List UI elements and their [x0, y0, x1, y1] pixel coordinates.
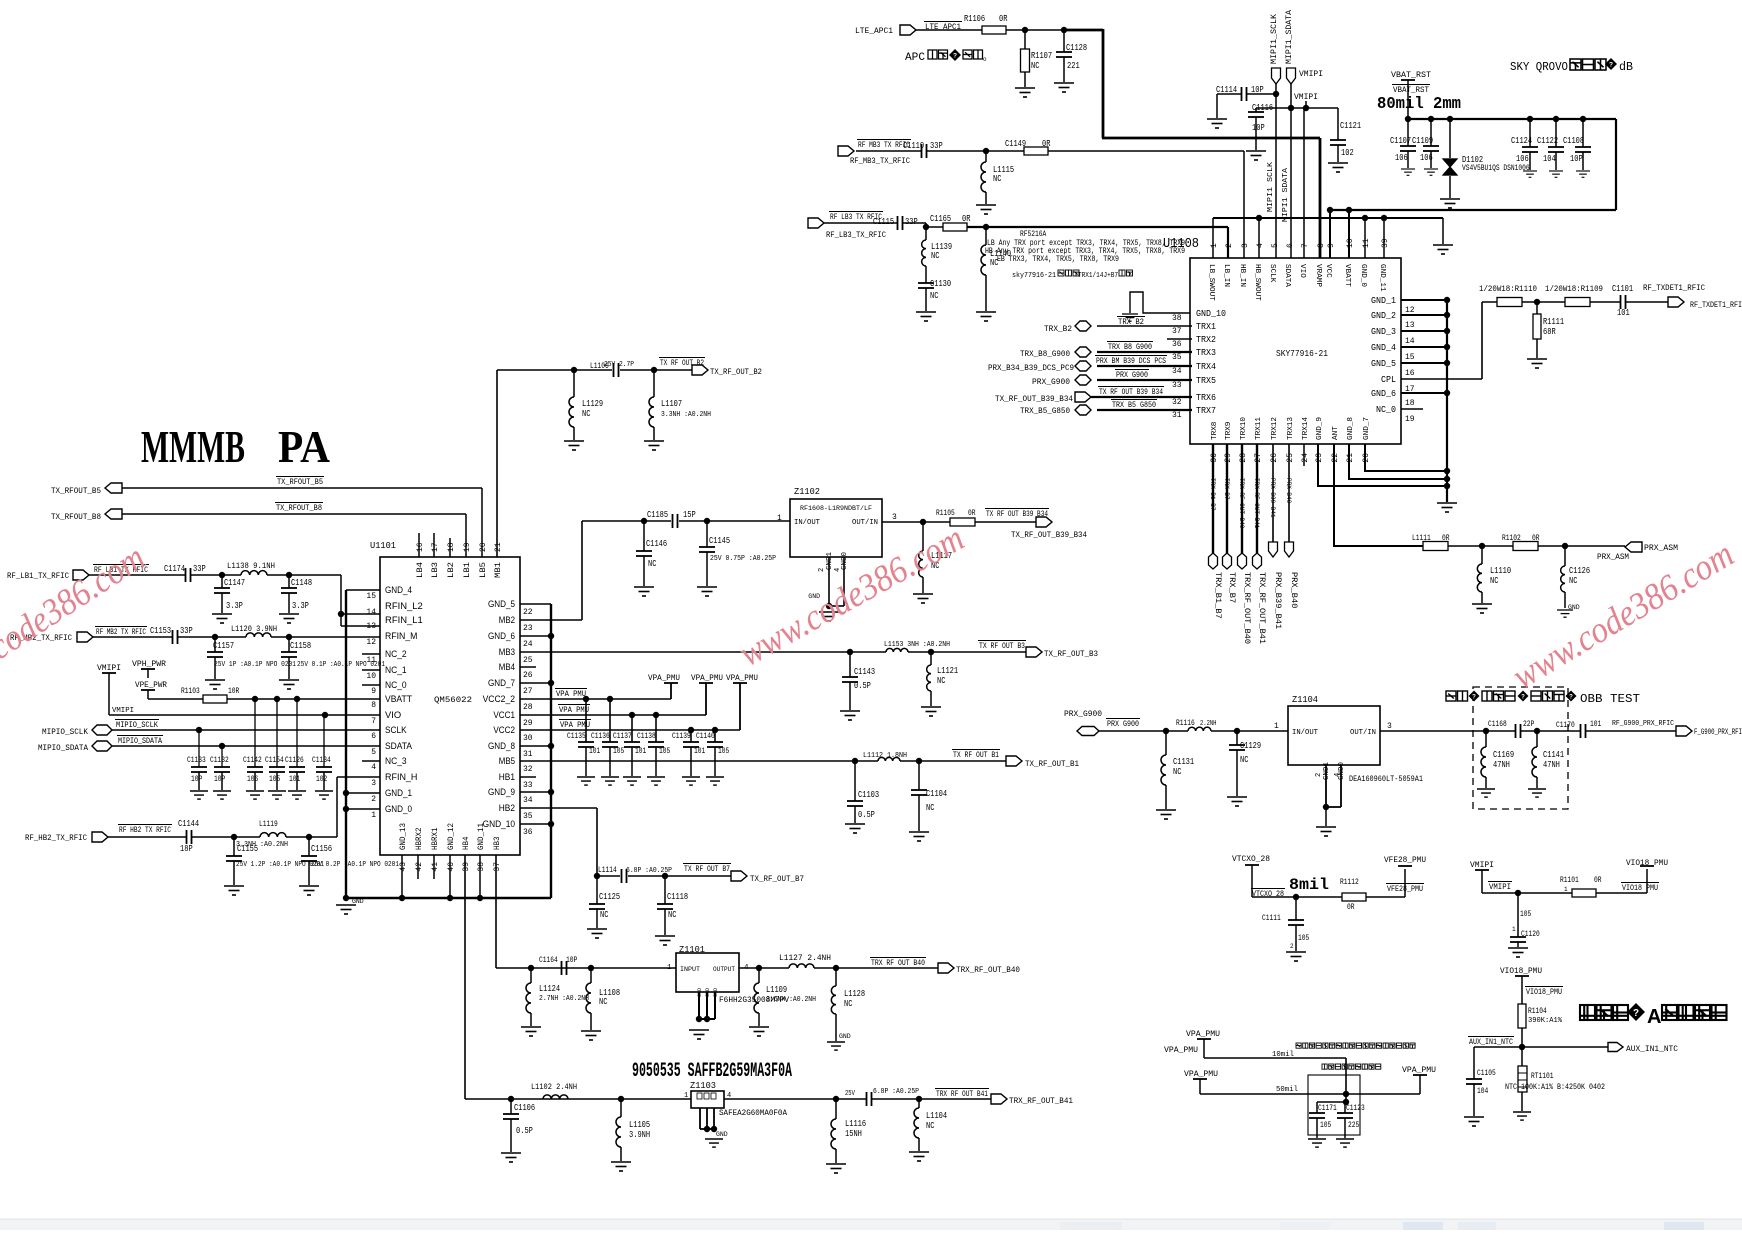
capacitor C1140: [714, 730, 716, 742]
svg-text:101: 101: [1617, 308, 1630, 318]
svg-text:TRX9: TRX9: [1225, 422, 1233, 440]
svg-text:SKY QROVO: SKY QROVO: [1510, 60, 1568, 74]
svg-text:13: 13: [366, 622, 376, 631]
svg-text:TX_RF_OUT_B7: TX_RF_OUT_B7: [750, 875, 804, 884]
svg-text:TRX_B2: TRX_B2: [1044, 325, 1072, 334]
wire gnd bus right: [1446, 300, 1448, 502]
svg-text:VBATT: VBATT: [1343, 264, 1351, 287]
svg-text:C1169: C1169: [1493, 750, 1514, 760]
node B7 b: [628, 875, 731, 877]
svg-text:225: 225: [1348, 1121, 1359, 1130]
svg-text:35: 35: [1172, 353, 1182, 362]
svg-text:C1122: C1122: [1537, 136, 1558, 146]
svg-text:1/20W18:R1109: 1/20W18:R1109: [1545, 285, 1603, 294]
node L1138 out: [267, 574, 341, 576]
svg-text:PRX BM B39 DCS PCS: PRX BM B39 DCS PCS: [1096, 357, 1166, 366]
node L1119 out: [286, 836, 337, 838]
node SCLK C1114: [1273, 91, 1279, 97]
svg-text:SAFEA2G60MA0F0A: SAFEA2G60MA0F0A: [719, 1109, 787, 1118]
svg-text:3: 3: [892, 513, 897, 522]
wire MIPI1_SDATA vertical: [1290, 84, 1292, 263]
svg-text:TRX B7: TRX B7: [1223, 478, 1230, 500]
svg-text:HBRX2: HBRX2: [415, 827, 424, 850]
resistor R1107: [1024, 30, 1026, 49]
svg-text:25V 0.1P :A0.1P NPO 0201: 25V 0.1P :A0.1P NPO 0201: [297, 661, 385, 669]
text katakana title bottom: [1580, 1005, 1595, 1020]
port PRX_ASM: [1625, 542, 1642, 552]
capacitor C1135: [585, 699, 587, 742]
ground C1143: [840, 711, 860, 720]
svg-text:28: 28: [523, 703, 533, 712]
svg-text:GND_5: GND_5: [1371, 359, 1396, 369]
svg-text:L1105: L1105: [629, 1120, 650, 1130]
wire to PRX_ASM: [1538, 545, 1625, 547]
ground Z1104: [1325, 807, 1327, 826]
capacitor C1158: [288, 637, 290, 652]
node L1108: [588, 965, 594, 971]
svg-text:390K:A1%: 390K:A1%: [1528, 1017, 1563, 1025]
svg-text:36: 36: [523, 828, 533, 837]
ground C1171: [1308, 1139, 1326, 1147]
wire R1103 to VBATT: [227, 698, 380, 700]
inductor L1116: [835, 1099, 837, 1119]
wire SCLK: [112, 729, 380, 731]
port RF_LB3_TX_RFIC: [808, 218, 824, 228]
svg-text:37: 37: [493, 862, 502, 872]
svg-text:2: 2: [1315, 773, 1323, 777]
svg-text:C1147: C1147: [224, 578, 245, 588]
ground C1133: [190, 791, 208, 799]
svg-text:105: 105: [613, 747, 624, 756]
wire LB4 stub: [418, 533, 420, 557]
svg-text:Z1103: Z1103: [690, 1081, 716, 1091]
wire GND_11 down: [479, 855, 481, 898]
svg-text:R1107: R1107: [1031, 51, 1052, 61]
svg-text:GND: GND: [697, 988, 703, 997]
svg-text:3.3P: 3.3P: [292, 601, 309, 611]
svg-text:C1125: C1125: [599, 892, 620, 902]
svg-text:105: 105: [1298, 934, 1309, 943]
svg-text:Z1104: Z1104: [1292, 695, 1318, 705]
svg-text:RF_TXDET1_RFI: RF_TXDET1_RFI: [1690, 301, 1742, 310]
ground L1110: [1472, 604, 1492, 613]
svg-text:TX_RF_OUT_B3: TX_RF_OUT_B3: [1044, 650, 1098, 659]
capacitor C1126: [296, 699, 298, 767]
svg-text:37: 37: [1172, 327, 1182, 336]
svg-text:28: 28: [1239, 453, 1248, 463]
wire GND_9 down: [1318, 444, 1447, 486]
svg-text:105: 105: [659, 747, 670, 756]
svg-text:38: 38: [477, 862, 486, 872]
svg-text:L1124: L1124: [539, 984, 560, 994]
wire Z1104 gnd: [1325, 765, 1327, 807]
svg-text:101: 101: [589, 747, 600, 756]
capacitor C1142: [254, 699, 256, 767]
svg-text:INPUT: INPUT: [680, 966, 700, 973]
ground C1130: [916, 312, 936, 321]
svg-text:HB3: HB3: [493, 836, 502, 850]
svg-text:TRX3: TRX3: [1196, 348, 1216, 358]
svg-text:dB: dB: [1619, 60, 1633, 74]
wire TRX3: [1097, 351, 1192, 353]
node LB3 a: [923, 224, 929, 230]
svg-text:NC: NC: [1240, 755, 1249, 765]
node L1120 out: [271, 636, 289, 638]
ground gnd bus right: [1437, 503, 1457, 512]
svg-text:GND: GND: [839, 1033, 851, 1040]
svg-text:GND_1: GND_1: [1371, 296, 1396, 306]
wire GND_4 to gnd bus: [346, 589, 380, 591]
svg-text:TRX11: TRX11: [1255, 417, 1263, 440]
pulse symbol GND_10: [1130, 292, 1190, 313]
inductor C1131: [1165, 731, 1167, 755]
svg-text:3.9NH: 3.9NH: [629, 1130, 650, 1140]
svg-text:26: 26: [1270, 453, 1279, 463]
svg-text:1: 1: [371, 811, 376, 820]
svg-text:TRX RF OUT B40: TRX RF OUT B40: [871, 959, 925, 968]
svg-text:L1102 2.4NH: L1102 2.4NH: [531, 1083, 577, 1092]
svg-text:PRX_ASM: PRX_ASM: [1644, 544, 1678, 553]
svg-text:25V 2.7P: 25V 2.7P: [604, 361, 634, 369]
svg-text:R1104: R1104: [1528, 1007, 1547, 1016]
inductor L1121: [930, 652, 932, 665]
node C1106: [508, 1096, 514, 1102]
svg-text:104: 104: [1543, 154, 1556, 164]
svg-text:18: 18: [1405, 399, 1415, 408]
svg-text:EB TRX3, TRX4, TRX5, TRX8, TRX: EB TRX3, TRX4, TRX5, TRX8, TRX9: [997, 255, 1119, 264]
node VBATT: [1346, 207, 1352, 213]
svg-text:C1168: C1168: [1488, 720, 1507, 729]
svg-text:9: 9: [371, 687, 376, 696]
wire RFIN_M: [289, 636, 380, 638]
svg-text:29: 29: [523, 719, 533, 728]
node C1120: [1515, 890, 1521, 896]
svg-text:C1148: C1148: [291, 578, 312, 588]
svg-text:C1124: C1124: [1511, 136, 1532, 146]
svg-text:0.5P: 0.5P: [854, 681, 871, 691]
svg-text:0R: 0R: [999, 14, 1008, 24]
svg-text:L1119: L1119: [259, 820, 278, 829]
wire B41 row: [465, 1098, 691, 1100]
svg-text:VPH_PWR: VPH_PWR: [132, 660, 166, 669]
svg-text:AUX_IN1_NTC: AUX_IN1_NTC: [1626, 1045, 1678, 1054]
svg-text:RF_MB3_TX_RFIC: RF_MB3_TX_RFIC: [850, 157, 910, 166]
svg-text:TRX RF OUT B40: TRX RF OUT B40: [1238, 478, 1245, 528]
node pin4 tie: [1256, 215, 1262, 221]
node C1141: [1521, 730, 1580, 732]
svg-text:12: 12: [1405, 306, 1415, 315]
svg-text:1: 1: [684, 1092, 688, 1100]
svg-text:C1142: C1142: [243, 756, 262, 765]
node GND_11 tie: [1381, 215, 1387, 221]
svg-text:PRX G900: PRX G900: [1116, 371, 1148, 380]
ground C1123: [1336, 1139, 1354, 1147]
svg-text:L1114: L1114: [598, 866, 617, 875]
svg-text:29: 29: [1224, 453, 1233, 463]
svg-text:10P: 10P: [1570, 154, 1583, 164]
svg-text:C1126: C1126: [1569, 566, 1590, 576]
capacitor C1132: [221, 746, 223, 767]
node B3: [908, 651, 1026, 653]
svg-text:R1101: R1101: [1560, 876, 1579, 885]
svg-text:GND0: GND0: [841, 552, 849, 570]
svg-text:L1138 9.1NH: L1138 9.1NH: [227, 562, 275, 571]
svg-text:C1141: C1141: [1543, 750, 1564, 760]
node GND_0: [346, 808, 380, 810]
svg-text:C1131: C1131: [1173, 757, 1194, 767]
svg-text:TX_RF_OUT_B2: TX_RF_OUT_B2: [710, 368, 762, 377]
svg-text:C1105: C1105: [1477, 1069, 1496, 1078]
ground L1116: [826, 1164, 846, 1173]
svg-text:RF HB2 TX RFIC: RF HB2 TX RFIC: [119, 826, 171, 835]
svg-text:VIO18_PMU: VIO18_PMU: [1500, 967, 1542, 976]
svg-text:TRX_B5_G850: TRX_B5_G850: [1020, 407, 1070, 416]
svg-text:VMIPI: VMIPI: [1299, 70, 1323, 79]
svg-text:TX_RF_OUT_B1: TX_RF_OUT_B1: [1025, 760, 1079, 769]
svg-text:LB_SWOUT: LB_SWOUT: [1207, 264, 1215, 301]
svg-text:25: 25: [523, 656, 533, 665]
port TX_RF_OUT_B2: [692, 365, 708, 375]
ground L1124: [521, 1027, 541, 1036]
capacitor C1118: [664, 876, 666, 904]
wire GND_11 up: [1383, 218, 1385, 258]
svg-text:NC: NC: [926, 803, 935, 813]
svg-text:ANT: ANT: [1332, 426, 1340, 440]
wire TRX2 stub: [1167, 338, 1192, 340]
svg-text:TRX7: TRX7: [1196, 406, 1216, 416]
svg-text:MIPIO_SDATA: MIPIO_SDATA: [118, 737, 162, 746]
svg-text:VPA PMU: VPA PMU: [556, 690, 586, 699]
capacitor C1106: [510, 1099, 512, 1114]
svg-text:LB2: LB2: [447, 562, 456, 578]
capacitor C1104: [918, 761, 920, 790]
ground C1126: [288, 791, 306, 799]
svg-text:GND_7: GND_7: [488, 678, 515, 688]
port TRX_RF_OUT_B40: [938, 963, 954, 973]
svg-text:2: 2: [1225, 243, 1234, 248]
wire GND_13 down: [401, 855, 403, 898]
port TX_RF_OUT_B7: [731, 871, 747, 881]
capacitor C1153: [93, 636, 172, 638]
svg-text:19: 19: [1405, 415, 1415, 424]
svg-text:L1116: L1116: [845, 1119, 866, 1129]
svg-text:33P: 33P: [180, 626, 193, 636]
svg-text:VCC2: VCC2: [493, 725, 515, 735]
ground L1117: [913, 594, 933, 603]
wire to B40 port: [814, 967, 938, 969]
svg-text:VBAT_RST: VBAT_RST: [1393, 86, 1429, 95]
wire AUX left: [1474, 1046, 1522, 1048]
wire ANT down: [1334, 444, 1423, 546]
svg-text:C1137: C1137: [613, 732, 632, 741]
ground C1169: [1477, 789, 1495, 797]
svg-text:RF5216A: RF5216A: [1020, 230, 1046, 239]
svg-text:9: 9: [1327, 243, 1336, 248]
wire swout line down: [1442, 218, 1444, 244]
svg-text:GND_10: GND_10: [1196, 309, 1226, 319]
svg-text:105: 105: [718, 747, 729, 756]
svg-text:LB5: LB5: [479, 562, 488, 578]
node GND_1: [346, 792, 380, 794]
svg-text:GND1: GND1: [1323, 762, 1331, 780]
svg-text:80mil 2mm: 80mil 2mm: [1377, 95, 1461, 114]
svg-text:VPA_PMU: VPA_PMU: [1186, 1030, 1220, 1039]
capacitor C1121: [1337, 108, 1339, 140]
svg-text:105: 105: [269, 775, 280, 784]
svg-text:10R: 10R: [228, 687, 239, 696]
svg-text:43: 43: [399, 862, 408, 872]
svg-text:14: 14: [1405, 337, 1415, 346]
svg-text:NC: NC: [1490, 576, 1499, 586]
ground C1128: [1054, 83, 1074, 92]
wire LB2 stub: [449, 538, 451, 557]
wire GND_12 down: [449, 855, 451, 898]
svg-text:?: ?: [1609, 62, 1613, 69]
svg-text:34: 34: [1172, 367, 1182, 376]
wire R1106 to node: [1006, 29, 1064, 31]
svg-text:VCC: VCC: [1324, 264, 1332, 278]
wire HB_SWOUT pin4 up: [1258, 218, 1260, 258]
wire C1165 to LB_IN: [967, 226, 1228, 228]
svg-text:0.5P: 0.5P: [858, 810, 875, 820]
port TX_RF_OUT_B3: [1026, 647, 1042, 657]
capacitor C1147: [221, 575, 223, 588]
svg-text:10mil: 10mil: [1272, 1051, 1294, 1059]
capacitor C1144: [108, 836, 186, 838]
svg-text:MIPI1_SCLK: MIPI1_SCLK: [1270, 14, 1279, 64]
svg-text:GND_12: GND_12: [447, 823, 456, 850]
wire TX_RFOUT_B8: [122, 513, 466, 515]
svg-text:PRX B40: PRX B40: [1285, 478, 1292, 503]
svg-text:32: 32: [523, 765, 533, 774]
ground C1158: [279, 680, 299, 689]
inductor L1139: [925, 227, 927, 240]
node L1124: [528, 965, 534, 971]
ic U1108 SKY77916-21 body: [1190, 258, 1401, 444]
node C1144 out: [192, 836, 260, 838]
wire to RFIN_H: [336, 777, 338, 837]
node R1110 R1109: [1522, 301, 1565, 303]
svg-text:GND_4: GND_4: [385, 585, 412, 595]
svg-text:6: 6: [371, 732, 376, 741]
svg-text:LTE_APC1: LTE_APC1: [855, 27, 893, 36]
capacitor C1120: [1517, 893, 1519, 937]
port TX_RF_OUT_B39_B34: [1036, 517, 1052, 527]
svg-text:IN/OUT: IN/OUT: [1292, 729, 1318, 737]
svg-text:C1138: C1138: [637, 732, 656, 741]
ground swout line: [1433, 245, 1453, 254]
svg-text:25: 25: [1286, 453, 1295, 463]
svg-text:C1104: C1104: [926, 789, 947, 799]
svg-text:4: 4: [1256, 243, 1265, 248]
wire APC thick to VRAMP: [1064, 29, 1103, 32]
svg-text:12: 12: [366, 638, 376, 647]
inductor L1108: [590, 968, 592, 983]
svg-text:RFIN_L1: RFIN_L1: [385, 615, 423, 625]
ground C1147: [212, 614, 232, 623]
svg-text:22P: 22P: [1523, 720, 1534, 729]
svg-text:TRX8: TRX8: [1211, 422, 1219, 440]
svg-text:TRX10: TRX10: [1240, 417, 1248, 440]
svg-text:VMIPI: VMIPI: [112, 707, 134, 715]
svg-text:C1130: C1130: [930, 279, 951, 289]
inductor L1117: [922, 522, 924, 551]
svg-text:GND_11: GND_11: [1378, 264, 1386, 292]
svg-text:C1153: C1153: [150, 626, 171, 636]
ground L1107: [644, 441, 664, 450]
dashed test box: [1473, 687, 1568, 809]
svg-text:LB_IN: LB_IN: [1222, 264, 1230, 287]
svg-text:C1155: C1155: [237, 844, 258, 854]
svg-text:R1112: R1112: [1340, 878, 1359, 887]
svg-text:HB2: HB2: [499, 803, 515, 813]
capacitor C1171: [1316, 1102, 1318, 1113]
wire to B2 port: [620, 369, 692, 371]
capacitor C1133: [198, 730, 200, 767]
ground C1155: [224, 886, 244, 895]
wire bottom gnd bus: [346, 897, 551, 899]
svg-text:RF_LB1_TX_RFIC: RF_LB1_TX_RFIC: [7, 572, 69, 581]
svg-text:R1105: R1105: [936, 509, 955, 518]
wire GND_7 down: [1365, 444, 1447, 471]
svg-text:Z1102: Z1102: [794, 487, 820, 497]
svg-text:1: 1: [1512, 926, 1516, 933]
svg-text:RFIN_H: RFIN_H: [385, 772, 417, 782]
svg-text:U1108: U1108: [1163, 236, 1199, 252]
wire gnd bus left: [345, 590, 347, 898]
port TRX_RF_OUT_B40: [1238, 553, 1247, 569]
svg-text:3: 3: [371, 779, 376, 788]
port PRX_B39_B41: [1269, 542, 1278, 557]
wire to Z1104: [1211, 730, 1288, 732]
inductor L1128: [835, 968, 837, 986]
svg-text:PRX_G900: PRX_G900: [1032, 378, 1070, 387]
ground C1120: [1508, 948, 1528, 957]
capacitor C1157: [214, 637, 216, 652]
svg-text:4: 4: [371, 763, 376, 772]
wire to VIO18: [1596, 892, 1647, 894]
svg-text:24: 24: [1301, 453, 1310, 463]
wire GND pin right: [520, 635, 551, 637]
svg-text:TRX_B8_G900: TRX_B8_G900: [1020, 350, 1070, 359]
inductor L1109: [758, 968, 760, 983]
svg-text:HB1: HB1: [499, 772, 515, 782]
svg-text:105: 105: [1320, 1121, 1331, 1130]
svg-text:VPA PMU: VPA PMU: [559, 706, 589, 715]
svg-text:L1128: L1128: [844, 989, 865, 999]
svg-text:VPA_PMU: VPA_PMU: [691, 674, 723, 683]
port TRX_RF_OUT_B41: [1253, 553, 1262, 569]
svg-text:GND_5: GND_5: [488, 599, 515, 609]
svg-text:SDATA: SDATA: [1283, 264, 1291, 287]
svg-text:TX_RFOUT_B8: TX_RFOUT_B8: [276, 504, 322, 513]
svg-text:NC: NC: [937, 676, 946, 686]
svg-text:C1118: C1118: [667, 892, 688, 902]
svg-text:TRX5: TRX5: [1196, 376, 1216, 386]
capacitor C1137: [631, 715, 633, 742]
node L1105: [618, 1096, 624, 1102]
svg-text:L1110: L1110: [1490, 566, 1511, 576]
ground C1134: [315, 791, 333, 799]
svg-text:3.6NH :A0.2NH: 3.6NH :A0.2NH: [766, 996, 816, 1004]
svg-text:106: 106: [247, 775, 258, 784]
svg-text:NC_3: NC_3: [385, 756, 407, 766]
ground C1146: [634, 587, 654, 596]
svg-text:A: A: [1647, 1006, 1661, 1028]
svg-text:DEA160960LT-5059A1: DEA160960LT-5059A1: [1349, 775, 1423, 784]
wire TRX6: [1091, 396, 1192, 398]
wire GND_0 up: [1364, 218, 1366, 258]
